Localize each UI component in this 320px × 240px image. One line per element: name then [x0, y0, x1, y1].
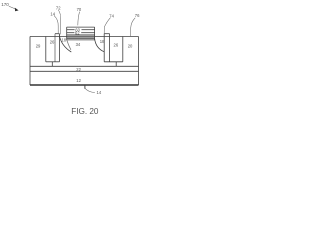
- svg-text:12: 12: [76, 78, 81, 83]
- svg-text:72: 72: [56, 5, 61, 10]
- svg-text:76: 76: [135, 13, 140, 18]
- svg-text:FIG. 20: FIG. 20: [71, 107, 99, 116]
- svg-text:26: 26: [50, 40, 55, 45]
- svg-text:14: 14: [97, 90, 102, 95]
- svg-text:22: 22: [76, 67, 81, 72]
- svg-text:18: 18: [61, 38, 66, 43]
- svg-text:170: 170: [1, 2, 9, 7]
- svg-text:70: 70: [77, 7, 82, 12]
- svg-text:18: 18: [100, 39, 105, 44]
- svg-text:34: 34: [76, 42, 81, 47]
- svg-text:29: 29: [36, 44, 41, 49]
- svg-text:74: 74: [109, 13, 114, 18]
- svg-text:20: 20: [128, 43, 133, 48]
- svg-text:62: 62: [75, 30, 80, 35]
- svg-text:26: 26: [114, 43, 119, 48]
- svg-text:14: 14: [50, 11, 55, 16]
